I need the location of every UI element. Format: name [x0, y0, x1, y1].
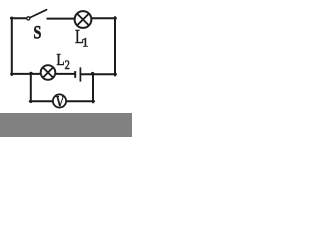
- wire: voltmeter branch left vertical: [30, 74, 32, 103]
- switch S blade: [30, 10, 46, 18]
- svg-text:L: L: [56, 50, 64, 69]
- wire: middle horizontal left part (under L2): [11, 73, 75, 75]
- wire: middle horizontal right part (battery to right vertical): [81, 73, 116, 75]
- svg-text:1: 1: [82, 34, 89, 49]
- svg-text:S: S: [33, 23, 41, 43]
- svg-text:2: 2: [65, 58, 70, 72]
- wire: top segment lamp L1 to right corner: [91, 17, 115, 19]
- wire: left vertical: [11, 18, 13, 75]
- gray bar at bottom: [0, 113, 132, 137]
- voltmeter V: [53, 94, 66, 107]
- battery negative short plate: [74, 71, 76, 78]
- wire: voltmeter branch bottom left: [30, 100, 53, 102]
- wire: voltmeter branch right vertical: [92, 74, 94, 103]
- wire: right vertical: [114, 17, 116, 75]
- junction node left: [29, 72, 33, 76]
- battery positive long plate: [79, 67, 81, 81]
- switch S pivot contact: [27, 17, 30, 20]
- wire: top segment switch to lamp L1: [48, 18, 75, 20]
- background: [0, 0, 132, 137]
- wire: top left segment to switch: [11, 17, 27, 19]
- wire: voltmeter branch bottom right: [67, 100, 94, 102]
- junction node right: [91, 72, 95, 76]
- lamp L1: [75, 11, 92, 28]
- lamp L2: [41, 65, 56, 80]
